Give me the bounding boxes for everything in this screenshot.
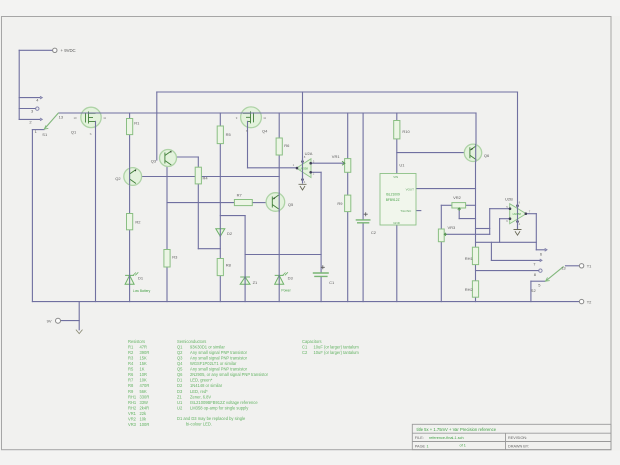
pin dot U2A out bbox=[296, 167, 299, 170]
svg-text:BFB912Z: BFB912Z bbox=[386, 198, 400, 202]
wire U2B pin6 lead bbox=[500, 218, 510, 220]
svg-text:2k4R: 2k4R bbox=[140, 405, 150, 410]
svg-text:Q2: Q2 bbox=[115, 176, 121, 181]
wire through Q5 bbox=[278, 193, 280, 212]
wire U1 GND pin to rail bbox=[396, 225, 398, 302]
wire left column S1 to ground rail bbox=[31, 130, 33, 302]
svg-text:LM358: LM358 bbox=[513, 212, 522, 216]
transistor Q2 circle bbox=[124, 168, 142, 186]
svg-text:S2: S2 bbox=[531, 288, 537, 293]
wire S2 contact 6 bbox=[536, 249, 545, 251]
wire S2 common to T1 bbox=[566, 265, 580, 267]
svg-text:Q1: Q1 bbox=[71, 130, 77, 135]
wire 9V terminal lead bbox=[60, 320, 79, 322]
svg-text:VR1: VR1 bbox=[332, 154, 341, 159]
title block frame bbox=[412, 424, 611, 449]
resistor R9 bbox=[345, 195, 351, 212]
resistor R5 bbox=[217, 126, 223, 144]
svg-text:S: S bbox=[90, 132, 92, 136]
LED D3 light arrows bbox=[283, 272, 288, 275]
wire RH1 to RH2 bbox=[475, 265, 477, 281]
pin dot U2A v- bbox=[301, 178, 304, 181]
svg-text:Q6: Q6 bbox=[177, 372, 183, 377]
wire bus to R5 top bbox=[219, 113, 221, 126]
resistor R1 bbox=[127, 119, 133, 135]
wire sense tap to output column bbox=[476, 228, 490, 230]
resistor R6 bbox=[276, 138, 282, 155]
pin dot U2B out bbox=[525, 212, 528, 215]
wire S1 contact 2 bbox=[19, 118, 40, 120]
svg-text:Z1: Z1 bbox=[177, 394, 183, 399]
wire Q1 source inside bbox=[95, 121, 97, 128]
svg-text:Power: Power bbox=[281, 289, 291, 293]
wire through Q6 bbox=[475, 144, 477, 161]
wire pin6 column down bbox=[499, 219, 501, 243]
wire U2B power feed bbox=[517, 92, 519, 229]
svg-text:13: 13 bbox=[561, 266, 566, 271]
wire R8 bottom to rail bbox=[219, 276, 221, 302]
svg-text:LM358: LM358 bbox=[300, 166, 309, 170]
svg-text:Any small signal PNP transisto: Any small signal PNP transistor bbox=[190, 356, 248, 361]
svg-text:PAGE: PAGE bbox=[415, 445, 426, 449]
svg-text:R3: R3 bbox=[128, 356, 134, 361]
svg-text:15K: 15K bbox=[140, 361, 148, 366]
svg-text:33W: 33W bbox=[140, 400, 149, 405]
wire Q3 emitter to R4 bbox=[176, 156, 198, 158]
wire C1 bottom to rail bbox=[320, 277, 322, 302]
svg-text:S1: S1 bbox=[42, 132, 48, 137]
pin dot U2B v+ bbox=[516, 204, 519, 207]
svg-text:D1: D1 bbox=[177, 378, 183, 383]
switch S1 contact 4 arrowhead bbox=[40, 96, 42, 99]
svg-text:U2B: U2B bbox=[505, 197, 513, 202]
svg-text:Q2: Q2 bbox=[177, 350, 183, 355]
transistor Q3 marks bbox=[165, 151, 171, 165]
svg-text:470R: 470R bbox=[140, 383, 150, 388]
wire through Q2 bbox=[129, 168, 131, 185]
capacitor C1 plus sign bbox=[321, 265, 325, 269]
switch S1 contact 2 arrowhead bbox=[40, 118, 42, 121]
svg-text:FILE:: FILE: bbox=[415, 436, 424, 440]
svg-text:D1 and D3 may be replaced by s: D1 and D3 may be replaced by single bbox=[177, 416, 246, 421]
wire pin5 column down bbox=[489, 209, 491, 235]
wire through Q1 bbox=[81, 112, 101, 114]
svg-text:LM358 op-amp for single supply: LM358 op-amp for single supply bbox=[190, 405, 249, 410]
resistor RH2 bbox=[472, 281, 478, 297]
wire bus to C2 top bbox=[362, 113, 364, 220]
transistor Q5 circle bbox=[266, 193, 285, 212]
wire bus down to Q6 collector bbox=[475, 113, 477, 144]
wire R3 bottom to rail bbox=[166, 267, 168, 302]
svg-text:R2: R2 bbox=[128, 350, 134, 355]
svg-text:title 5x + 1.75mV + Var Prec: title 5x + 1.75mV + Var Precision refere… bbox=[417, 427, 497, 432]
wire U2B output bbox=[526, 213, 536, 215]
wire Z1 column upper bbox=[244, 216, 246, 255]
svg-text:11: 11 bbox=[103, 116, 106, 120]
pin dot U2A pin3 bbox=[309, 162, 312, 165]
wire rail to bottom ground bbox=[78, 302, 80, 330]
pin dot U2A pin2 bbox=[309, 171, 312, 174]
terminal T1 bbox=[579, 264, 583, 268]
ground U2A bbox=[299, 184, 307, 190]
svg-text:1: 1 bbox=[427, 445, 429, 449]
svg-text:R4: R4 bbox=[128, 361, 134, 366]
svg-text:9V: 9V bbox=[47, 318, 52, 323]
wire ground rail bbox=[32, 301, 579, 303]
svg-text:U1: U1 bbox=[177, 400, 183, 405]
wire upper bus y92 bbox=[157, 91, 518, 93]
wire S1 pivot contact 1 bbox=[32, 129, 44, 131]
wire U2A pin2 feedback bbox=[311, 171, 321, 173]
svg-text:D3: D3 bbox=[288, 275, 294, 280]
svg-text:REVISION:: REVISION: bbox=[508, 436, 527, 440]
svg-text:Resistors: Resistors bbox=[128, 339, 145, 344]
wire feedback run y242 bbox=[476, 241, 537, 243]
wire reference node to C1 bbox=[245, 254, 321, 256]
wire R4 top bbox=[197, 157, 199, 167]
svg-text:ISL21009: ISL21009 bbox=[386, 193, 400, 197]
wire through U2B power bbox=[517, 205, 519, 229]
wire Q4 source inside bbox=[247, 121, 249, 128]
wire Q2 emitter to R2 top bbox=[129, 184, 131, 213]
svg-text:R6: R6 bbox=[284, 143, 290, 148]
svg-text:R1: R1 bbox=[128, 344, 134, 349]
wire VR2 left lead bbox=[441, 204, 452, 206]
LED D3 bbox=[275, 275, 284, 284]
svg-text:Q4: Q4 bbox=[262, 129, 268, 134]
svg-text:R8: R8 bbox=[128, 383, 134, 388]
svg-text:DRAWN BY:: DRAWN BY: bbox=[508, 445, 529, 449]
wire VR2 right lead bbox=[466, 204, 476, 206]
wire S2 contact 7 bbox=[491, 259, 540, 261]
svg-text:47R: 47R bbox=[140, 344, 148, 349]
svg-text:Q1: Q1 bbox=[177, 344, 183, 349]
svg-text:Zener, 6.8V: Zener, 6.8V bbox=[190, 394, 211, 399]
svg-text:U2A: U2A bbox=[305, 151, 313, 156]
wire R4 bottom down bbox=[197, 184, 199, 249]
svg-text:93K30D1 or similar: 93K30D1 or similar bbox=[190, 344, 225, 349]
svg-text:of 1: of 1 bbox=[460, 444, 466, 448]
wire D3 cathode to rail bbox=[278, 284, 280, 301]
transistor Q4 circle bbox=[241, 107, 262, 128]
pin dot U2B v- bbox=[516, 220, 519, 223]
terminal 9V return bbox=[56, 318, 61, 323]
svg-text:D3: D3 bbox=[177, 389, 183, 394]
svg-text:100R: 100R bbox=[140, 422, 150, 427]
svg-text:13: 13 bbox=[59, 115, 64, 120]
svg-text:390R: 390R bbox=[140, 350, 150, 355]
svg-text:R3: R3 bbox=[172, 254, 178, 259]
wire D2 cathode to R8 top bbox=[219, 237, 221, 259]
wire R7 right to Q5 base bbox=[252, 202, 266, 204]
wire R10 bottom to U1 VIN bbox=[396, 139, 398, 174]
svg-text:VR2: VR2 bbox=[128, 417, 137, 422]
svg-text:11: 11 bbox=[263, 116, 266, 120]
ground U2B bbox=[514, 230, 522, 236]
resistor R8 bbox=[217, 259, 223, 276]
wire C2 bottom to rail bbox=[362, 223, 364, 302]
diode D2 bbox=[216, 229, 225, 237]
potentiometer VR3 wiper arrow bbox=[444, 233, 447, 236]
svg-text:10uF (or larger) tantalum: 10uF (or larger) tantalum bbox=[314, 350, 360, 355]
wire S2 pivot lead bbox=[531, 280, 545, 282]
zener Z1 bbox=[240, 277, 250, 284]
potentiometer VR1 body bbox=[345, 159, 351, 173]
wire Q4 source down bbox=[247, 128, 249, 168]
svg-text:Q3: Q3 bbox=[177, 356, 183, 361]
svg-text:RH2: RH2 bbox=[465, 287, 474, 292]
wire VR3 bottom to rail bbox=[440, 242, 442, 302]
svg-text:Any small signal PNP transisto: Any small signal PNP transistor bbox=[190, 350, 248, 355]
wire through Z1 bbox=[244, 276, 246, 284]
svg-text:10k: 10k bbox=[140, 417, 148, 422]
switch S2 contact 7 arrowhead bbox=[540, 259, 542, 262]
wire R3 column bbox=[166, 177, 168, 250]
transistor Q6 marks bbox=[470, 146, 476, 160]
svg-text:VR3: VR3 bbox=[128, 422, 137, 427]
wire feedback column down to C1 bbox=[320, 172, 322, 272]
svg-text:S: S bbox=[246, 129, 248, 133]
svg-text:LED, green*: LED, green* bbox=[190, 378, 213, 383]
wire VR2 wiper to column bbox=[459, 218, 475, 220]
wire Z1 bottom to rail bbox=[244, 284, 246, 301]
resistor R2 bbox=[127, 214, 133, 230]
svg-text:ISL21009BFB912Z voltage refere: ISL21009BFB912Z voltage reference bbox=[190, 400, 258, 405]
transistor Q2 marks bbox=[130, 170, 136, 184]
terminal T2 bbox=[579, 299, 583, 303]
terminal +9VDC bbox=[53, 48, 57, 52]
wire through D2 bbox=[219, 229, 221, 237]
wire VR2 wiper down bbox=[458, 208, 460, 219]
switch S1 contact 3 circle bbox=[36, 107, 39, 110]
svg-text:Capacitors: Capacitors bbox=[302, 339, 322, 344]
svg-text:+ 9VDC: + 9VDC bbox=[61, 48, 76, 53]
wire Q3 collector down bbox=[166, 166, 168, 176]
svg-text:R9: R9 bbox=[128, 389, 134, 394]
svg-text:RH1: RH1 bbox=[465, 256, 474, 261]
svg-text:Z1: Z1 bbox=[253, 280, 258, 285]
svg-text:LED, red*: LED, red* bbox=[190, 389, 208, 394]
wire Q2 base node across bbox=[142, 176, 280, 178]
svg-text:22k: 22k bbox=[140, 411, 148, 416]
svg-text:U1: U1 bbox=[399, 162, 405, 167]
wire through Q4 bbox=[241, 112, 261, 114]
svg-text:VR3: VR3 bbox=[448, 225, 457, 230]
transistor Q6 circle bbox=[464, 144, 481, 161]
wire S1 contact 4 bbox=[19, 97, 40, 99]
wire node to R7 left bbox=[167, 202, 234, 204]
wire output column down bbox=[535, 214, 537, 250]
svg-text:R7: R7 bbox=[237, 192, 243, 197]
svg-text:WGSF1P02LT1 or similar: WGSF1P02LT1 or similar bbox=[190, 361, 237, 366]
svg-text:GND: GND bbox=[393, 221, 401, 225]
LED D1 light arrows bbox=[133, 272, 138, 275]
svg-text:D2: D2 bbox=[227, 231, 233, 236]
svg-text:T1: T1 bbox=[587, 264, 592, 269]
wire VR3 wiper to U2B pin5 bbox=[444, 233, 490, 235]
svg-text:D2: D2 bbox=[177, 383, 183, 388]
svg-text:R9: R9 bbox=[337, 201, 343, 206]
svg-text:C2: C2 bbox=[371, 230, 377, 235]
svg-text:10R: 10R bbox=[140, 372, 148, 377]
svg-text:10K: 10K bbox=[140, 378, 148, 383]
potentiometer VR2 wiper arrow bbox=[458, 208, 461, 211]
svg-text:reference-final-1.sch: reference-final-1.sch bbox=[429, 436, 464, 440]
wire U2A power feed bbox=[302, 92, 304, 183]
wire bus to R6 top bbox=[278, 113, 280, 138]
wire bus to R10 top bbox=[396, 113, 398, 121]
wire Q1 drain column to rail bbox=[95, 128, 97, 302]
wire U2B pin5 lead bbox=[490, 208, 510, 210]
svg-text:R5: R5 bbox=[128, 367, 134, 372]
svg-text:R4: R4 bbox=[203, 176, 209, 181]
wire main 9V bus y113 bbox=[59, 112, 476, 114]
svg-text:R2: R2 bbox=[135, 220, 141, 225]
potentiometer VR2 body bbox=[452, 203, 466, 208]
svg-text:Trim/NC: Trim/NC bbox=[400, 209, 412, 213]
svg-text:C1: C1 bbox=[302, 344, 308, 349]
svg-text:Q5: Q5 bbox=[288, 202, 294, 207]
wire through D1 bbox=[129, 275, 131, 284]
wire R9 bottom to rail bbox=[347, 212, 349, 302]
svg-text:1N4148 or similar: 1N4148 or similar bbox=[190, 383, 223, 388]
svg-text:VR2: VR2 bbox=[453, 195, 462, 200]
pin dot U2B pin5 bbox=[509, 207, 512, 210]
svg-text:56K: 56K bbox=[140, 389, 148, 394]
svg-text:U2: U2 bbox=[177, 405, 183, 410]
wire bus to Q3 base bbox=[156, 92, 158, 160]
svg-text:D1: D1 bbox=[138, 275, 144, 280]
svg-text:VOUT: VOUT bbox=[406, 187, 415, 191]
wire U1 VOUT to output column bbox=[416, 188, 476, 190]
svg-text:R10: R10 bbox=[402, 129, 410, 134]
IC U1 box bbox=[380, 174, 416, 226]
svg-text:Low Battery: Low Battery bbox=[133, 289, 151, 293]
capacitor C2 plates bbox=[356, 220, 371, 223]
wire R10 node to Q6 base bbox=[397, 152, 465, 154]
ground below 9V terminal bbox=[76, 330, 83, 334]
wire S2 contact 8 bbox=[476, 270, 539, 272]
svg-text:15K: 15K bbox=[140, 356, 148, 361]
resistor R4 bbox=[195, 167, 201, 184]
svg-text:bi-colour LED.: bi-colour LED. bbox=[186, 422, 212, 427]
wire VR1 bottom to R9 top bbox=[347, 172, 349, 195]
wire R1 bottom to Q2 collector bbox=[129, 135, 131, 169]
svg-text:C1: C1 bbox=[329, 280, 335, 285]
svg-text:10uF (or larger) tantalum: 10uF (or larger) tantalum bbox=[314, 344, 360, 349]
wire S2 contact 7 drop bbox=[490, 242, 492, 260]
transistor Q1 circle bbox=[81, 107, 101, 127]
wire Q6 emitter output column bbox=[475, 162, 477, 248]
wire Q5 emitter down to D3 bbox=[278, 211, 280, 275]
pin dot U2A v+ bbox=[301, 160, 304, 163]
resistor R3 bbox=[164, 250, 170, 268]
svg-text:10: 10 bbox=[74, 116, 78, 120]
transistor Q3 circle bbox=[160, 150, 177, 167]
wire through D3 bbox=[278, 275, 280, 284]
wire VR2 left to VR3 top bbox=[440, 205, 442, 229]
svg-text:330R: 330R bbox=[140, 394, 150, 399]
svg-text:Semiconductors: Semiconductors bbox=[177, 339, 206, 344]
switch S2 contact 6 arrowhead bbox=[545, 248, 547, 251]
svg-text:R7: R7 bbox=[128, 378, 134, 383]
svg-text:VIN: VIN bbox=[393, 175, 398, 179]
svg-text:C2: C2 bbox=[302, 350, 308, 355]
op-amp U2B body bbox=[510, 204, 527, 224]
svg-text:RH1: RH1 bbox=[128, 394, 137, 399]
wire U2A pin3 to VR1 bbox=[311, 162, 345, 164]
svg-text:RH1: RH1 bbox=[128, 400, 137, 405]
svg-text:VR1: VR1 bbox=[128, 411, 137, 416]
transistor Q1 mosfet marks bbox=[86, 112, 96, 128]
svg-text:1K: 1K bbox=[140, 367, 145, 372]
resistor R7 bbox=[234, 200, 252, 206]
wire R2 bottom to D1 anode bbox=[129, 230, 131, 275]
potentiometer VR3 body bbox=[438, 229, 444, 242]
wire R5 bottom to D2 bbox=[219, 144, 221, 229]
wire +9VDC feed horizontal bbox=[19, 49, 52, 51]
svg-text:R1: R1 bbox=[134, 120, 140, 125]
svg-text:Q6: Q6 bbox=[484, 153, 490, 158]
capacitor C1 plates bbox=[313, 273, 329, 276]
wire S2 pivot to rail bbox=[530, 281, 532, 301]
svg-text:R5: R5 bbox=[226, 132, 232, 137]
wire Z1 top bbox=[244, 255, 246, 277]
LED D1 bbox=[125, 275, 134, 284]
wire R4 to D2 column bbox=[198, 248, 220, 250]
wire D1 cathode to rail bbox=[129, 285, 131, 302]
svg-text:Q3: Q3 bbox=[151, 159, 157, 164]
svg-text:RH2: RH2 bbox=[128, 405, 137, 410]
transistor Q5 marks bbox=[272, 195, 278, 209]
svg-text:Q5: Q5 bbox=[177, 367, 183, 372]
switch S1 lever bbox=[44, 113, 59, 130]
wire R6 bottom to Q5 collector bbox=[278, 155, 280, 193]
transistor Q4 mosfet marks bbox=[243, 111, 254, 127]
op-amp U2A body bbox=[297, 159, 312, 178]
resistor RH1 bbox=[472, 247, 478, 264]
svg-text:R8: R8 bbox=[226, 262, 232, 267]
capacitor C2 plus sign bbox=[364, 212, 368, 216]
svg-text:Any small signal PNP transisto: Any small signal PNP transistor bbox=[190, 367, 248, 372]
wire through U2A power bbox=[302, 159, 304, 182]
svg-text:T2: T2 bbox=[587, 300, 592, 305]
svg-text:Q4: Q4 bbox=[177, 361, 183, 366]
wire D2 tap to Z1 column bbox=[220, 215, 245, 217]
wire bus to R1 top bbox=[129, 113, 131, 119]
potentiometer VR1 wiper arrow bbox=[342, 161, 345, 165]
svg-text:2N2905, or any small signal PN: 2N2905, or any small signal PNP transist… bbox=[190, 372, 269, 377]
wire U2A output run bbox=[248, 167, 297, 169]
wire +9VDC feed vertical to S1 contacts bbox=[18, 50, 20, 119]
pin dot U2B pin6 bbox=[509, 217, 512, 220]
svg-text:R6: R6 bbox=[128, 372, 134, 377]
wire bus to VR1 top bbox=[347, 113, 349, 159]
switch S2 lever bbox=[545, 266, 563, 281]
switch S2 contact 8 circle bbox=[539, 269, 542, 272]
wire S1 contact 3 bbox=[19, 108, 35, 110]
wire RH2 bottom to rail bbox=[475, 297, 477, 301]
wire U1 trim stub NC bbox=[416, 210, 421, 212]
resistor R10 bbox=[394, 121, 400, 139]
